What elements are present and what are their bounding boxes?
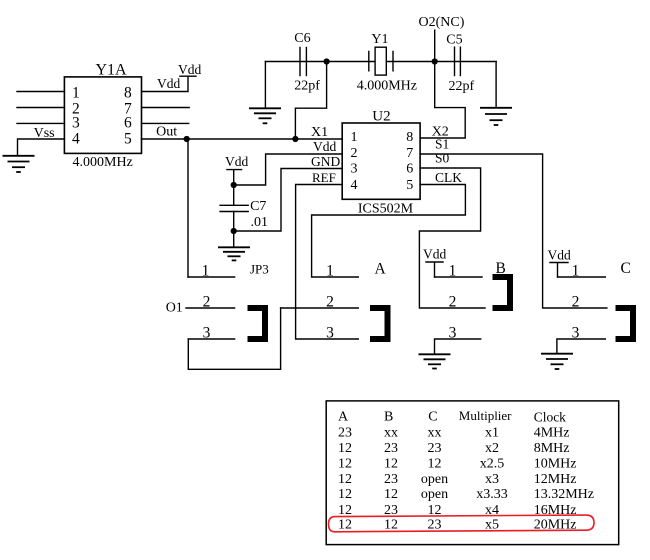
svg-text:12: 12: [338, 487, 352, 502]
svg-text:13.32MHz: 13.32MHz: [534, 487, 594, 502]
svg-text:S0: S0: [435, 151, 450, 166]
svg-text:23: 23: [428, 441, 442, 456]
svg-text:3: 3: [351, 162, 358, 177]
svg-text:x1: x1: [485, 426, 499, 441]
svg-text:C5: C5: [446, 33, 462, 48]
svg-text:23: 23: [338, 426, 352, 441]
svg-text:Y1: Y1: [371, 32, 388, 47]
svg-text:xx: xx: [384, 426, 398, 441]
svg-text:C7: C7: [250, 199, 266, 214]
svg-text:3: 3: [72, 115, 80, 132]
svg-text:Vdd: Vdd: [548, 247, 571, 262]
svg-text:3: 3: [449, 325, 457, 342]
svg-text:O1: O1: [166, 301, 183, 316]
svg-text:8: 8: [406, 130, 413, 145]
svg-text:1: 1: [351, 130, 358, 145]
svg-text:Vdd: Vdd: [157, 76, 180, 91]
svg-text:4.000MHz: 4.000MHz: [73, 155, 133, 170]
svg-text:x3.33: x3.33: [476, 487, 508, 502]
svg-text:6: 6: [124, 115, 132, 132]
svg-text:X1: X1: [311, 125, 328, 140]
svg-text:C: C: [621, 260, 631, 277]
svg-text:open: open: [421, 487, 448, 502]
svg-text:4: 4: [351, 178, 358, 193]
svg-text:Vdd: Vdd: [313, 139, 336, 154]
svg-text:GND: GND: [311, 154, 340, 169]
svg-text:3: 3: [326, 325, 334, 342]
svg-text:ICS502M: ICS502M: [358, 202, 414, 217]
svg-text:12: 12: [384, 518, 398, 533]
svg-text:8MHz: 8MHz: [534, 441, 570, 456]
svg-text:Y1A: Y1A: [96, 62, 128, 79]
svg-text:Vdd: Vdd: [225, 154, 248, 169]
svg-text:Multiplier: Multiplier: [459, 408, 512, 423]
svg-text:12: 12: [338, 472, 352, 487]
svg-text:12MHz: 12MHz: [534, 472, 577, 487]
svg-text:8: 8: [124, 85, 132, 102]
svg-text:open: open: [421, 472, 448, 487]
svg-text:.01: .01: [251, 215, 269, 230]
svg-text:12: 12: [338, 441, 352, 456]
svg-text:1: 1: [72, 85, 80, 102]
svg-text:23: 23: [384, 441, 398, 456]
svg-text:1: 1: [572, 263, 580, 280]
svg-text:23: 23: [384, 472, 398, 487]
svg-text:x2: x2: [485, 441, 499, 456]
svg-text:12: 12: [338, 518, 352, 533]
svg-text:22pf: 22pf: [294, 78, 320, 93]
svg-text:22pf: 22pf: [449, 79, 475, 94]
svg-text:2: 2: [326, 294, 334, 311]
svg-text:Vdd: Vdd: [423, 247, 446, 262]
svg-text:Vss: Vss: [34, 126, 55, 141]
svg-text:7: 7: [406, 146, 413, 161]
svg-text:1: 1: [449, 263, 457, 280]
svg-text:10MHz: 10MHz: [534, 457, 577, 472]
svg-text:1: 1: [326, 263, 334, 280]
svg-text:B: B: [384, 410, 393, 425]
svg-text:4.000MHz: 4.000MHz: [357, 79, 417, 94]
svg-text:Out: Out: [156, 125, 177, 140]
svg-text:U2: U2: [372, 108, 390, 124]
svg-text:O2(NC): O2(NC): [419, 15, 465, 30]
svg-text:x3: x3: [485, 472, 499, 487]
svg-text:C6: C6: [294, 31, 310, 46]
svg-text:12: 12: [384, 487, 398, 502]
svg-text:B: B: [496, 260, 506, 277]
svg-text:xx: xx: [428, 426, 442, 441]
svg-text:C: C: [428, 410, 437, 425]
svg-text:12: 12: [384, 457, 398, 472]
svg-text:2: 2: [203, 294, 211, 311]
svg-text:3: 3: [203, 325, 211, 342]
svg-text:REF: REF: [312, 170, 336, 185]
svg-text:Clock: Clock: [534, 410, 566, 425]
svg-text:x2.5: x2.5: [480, 457, 505, 472]
svg-text:5: 5: [406, 178, 413, 193]
svg-text:A: A: [338, 410, 349, 425]
svg-text:1: 1: [202, 263, 210, 280]
svg-text:2: 2: [351, 146, 358, 161]
svg-text:12: 12: [338, 503, 352, 518]
svg-text:4MHz: 4MHz: [534, 426, 570, 441]
svg-text:S1: S1: [435, 137, 449, 152]
svg-text:Vdd: Vdd: [178, 62, 201, 77]
svg-text:12: 12: [428, 457, 442, 472]
svg-text:A: A: [375, 260, 387, 277]
svg-text:6: 6: [406, 162, 413, 177]
svg-text:JP3: JP3: [250, 262, 269, 277]
svg-text:5: 5: [124, 131, 132, 148]
svg-text:2: 2: [572, 294, 580, 311]
svg-text:12: 12: [338, 457, 352, 472]
svg-text:CLK: CLK: [435, 170, 462, 185]
svg-text:3: 3: [572, 325, 580, 342]
svg-text:2: 2: [449, 294, 457, 311]
svg-text:4: 4: [72, 131, 80, 148]
